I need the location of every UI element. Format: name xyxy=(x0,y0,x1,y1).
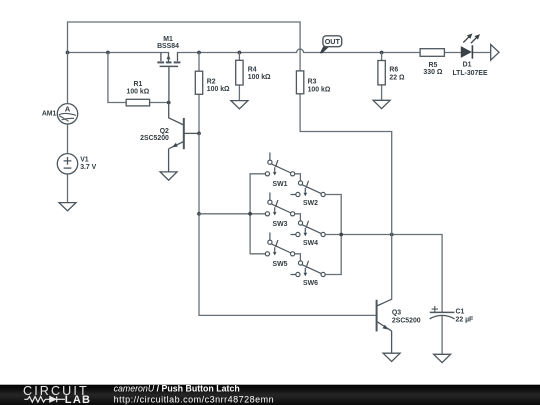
svg-text:Q3: Q3 xyxy=(392,310,401,317)
svg-text:3.7 V: 3.7 V xyxy=(80,164,96,171)
resistor R4 xyxy=(236,60,243,85)
resistor R2 xyxy=(195,71,202,94)
svg-text:100 kΩ: 100 kΩ xyxy=(207,86,230,93)
wire bus stub to SW1 xyxy=(250,173,265,175)
svg-text:R4: R4 xyxy=(248,66,257,73)
wire R6 drop xyxy=(381,53,383,61)
svg-text:R2: R2 xyxy=(207,78,216,85)
ground below R4 xyxy=(231,101,248,109)
wire R3 column top xyxy=(299,22,301,71)
node junction dot rail-R6 xyxy=(380,51,384,55)
svg-text:SW1: SW1 xyxy=(273,181,288,188)
voltage source V1 xyxy=(57,154,77,174)
wire top-left drop xyxy=(67,22,69,53)
svg-text:V1: V1 xyxy=(80,157,89,164)
node junction dot switch-row branch xyxy=(197,212,201,216)
wire Q3 collector column xyxy=(391,235,393,300)
resistor R5 xyxy=(420,49,444,57)
svg-text:SW6: SW6 xyxy=(303,280,318,287)
node junction dot Q2 base xyxy=(197,132,201,136)
wire R6 to ground xyxy=(381,85,383,100)
wire R3 down and across to Q3 collector column xyxy=(300,94,392,235)
wire R1 to node A xyxy=(150,102,169,104)
wire R1 branch drop xyxy=(108,53,126,103)
wire SW2 right to right bus xyxy=(325,194,341,196)
ground below C1 xyxy=(434,354,451,362)
flag OUT xyxy=(320,36,342,53)
wire main rail left segment xyxy=(68,52,169,54)
wire SW4 row to C1 xyxy=(325,235,442,313)
svg-text:22 µF: 22 µF xyxy=(456,316,474,323)
resistor R1 xyxy=(126,99,149,106)
ground below R6 xyxy=(373,100,390,108)
svg-text:LTL-307EE: LTL-307EE xyxy=(452,70,488,77)
svg-text:SW3: SW3 xyxy=(273,221,288,228)
svg-text:330 Ω: 330 Ω xyxy=(423,69,442,76)
ground below Q3 xyxy=(383,353,400,361)
wire R2 to Q2 base node xyxy=(198,94,200,133)
svg-text:M1: M1 xyxy=(163,36,173,43)
wire AM1 to V1 xyxy=(67,124,69,154)
wire main rail right segment with hop over R3 column xyxy=(178,49,421,52)
wire C1 to ground xyxy=(441,316,443,355)
svg-text:http://circuitlab.com/c3nrr487: http://circuitlab.com/c3nrr48728emn xyxy=(114,394,275,404)
svg-text:SW2: SW2 xyxy=(303,200,318,207)
svg-text:SW4: SW4 xyxy=(303,240,318,247)
wire V1 to ground xyxy=(67,174,69,203)
node junction dot rail-R4 xyxy=(238,51,242,55)
wire R5 to D1 xyxy=(444,52,461,54)
svg-text:A: A xyxy=(65,105,71,114)
svg-text:R6: R6 xyxy=(389,67,398,74)
svg-text:2SC5200: 2SC5200 xyxy=(140,135,169,142)
node junction dot left bus xyxy=(248,212,252,216)
svg-text:cameronU / Push Button Latch: cameronU / Push Button Latch xyxy=(114,384,240,394)
wire R4 to ground xyxy=(238,85,240,101)
output terminal xyxy=(491,45,499,61)
transistor Q2 xyxy=(169,103,199,172)
svg-text:Q2: Q2 xyxy=(160,128,169,135)
svg-text:R3: R3 xyxy=(308,79,317,86)
svg-text:100 kΩ: 100 kΩ xyxy=(308,86,331,93)
switch SW4 xyxy=(291,221,326,237)
svg-text:100 kΩ: 100 kΩ xyxy=(248,74,271,81)
svg-text:R1: R1 xyxy=(133,81,142,88)
wire R2 column continues down xyxy=(199,133,376,315)
wire D1 to output terminal xyxy=(473,52,491,54)
wire SW5 to SW6 xyxy=(295,254,301,261)
switch SW5 xyxy=(265,233,294,256)
switch SW3 xyxy=(265,193,294,216)
wire SW6 right to right bus xyxy=(325,274,341,276)
node junction dot right bus SW4 xyxy=(339,233,343,237)
svg-text:SW5: SW5 xyxy=(273,261,288,268)
svg-text:BSS84: BSS84 xyxy=(157,43,179,50)
svg-text:C1: C1 xyxy=(456,308,465,315)
svg-text:100 kΩ: 100 kΩ xyxy=(127,89,150,96)
svg-text:R5: R5 xyxy=(428,62,437,69)
wire branch to SW3 xyxy=(199,213,265,215)
switch SW2 xyxy=(291,181,326,197)
logo CIRCUIT LAB xyxy=(23,384,91,405)
switch SW1 xyxy=(265,153,294,176)
wire right switch bus xyxy=(340,195,342,275)
wire bus stub to SW5 xyxy=(250,253,265,255)
node junction dot R1-gate-collector xyxy=(167,101,171,105)
svg-text:D1: D1 xyxy=(463,61,472,68)
node junction dot rail-AM1 xyxy=(66,51,70,55)
wire SW3 to SW4 xyxy=(295,214,301,221)
wire AM1 branch from rail xyxy=(67,53,69,104)
ground below V1 xyxy=(59,203,76,211)
svg-text:2SC5200: 2SC5200 xyxy=(392,317,421,324)
node junction dot rail-R1 xyxy=(106,51,110,55)
ammeter AM1 xyxy=(57,104,77,124)
mosfet M1 xyxy=(157,53,180,103)
wire top rail xyxy=(68,21,301,23)
transistor Q3 xyxy=(377,299,392,353)
svg-text:LAB: LAB xyxy=(65,394,92,405)
capacitor C1 xyxy=(430,306,455,319)
resistor R6 xyxy=(378,61,385,85)
footer bar xyxy=(0,385,540,405)
wire left switch bus xyxy=(249,174,251,254)
wire R2 column xyxy=(198,53,200,72)
diode D1 LED xyxy=(461,34,479,59)
switch SW6 xyxy=(291,261,326,277)
svg-text:OUT: OUT xyxy=(325,37,341,46)
resistor R3 xyxy=(296,71,303,94)
wire R4 drop xyxy=(238,53,240,61)
node junction dot rail-R2 xyxy=(197,51,201,55)
svg-text:AM1: AM1 xyxy=(42,110,57,117)
node junction dot Q3 collector column xyxy=(390,233,394,237)
svg-text:22 Ω: 22 Ω xyxy=(389,74,405,81)
ground below Q2 xyxy=(160,172,177,180)
wire SW1 to SW2 xyxy=(295,174,301,181)
